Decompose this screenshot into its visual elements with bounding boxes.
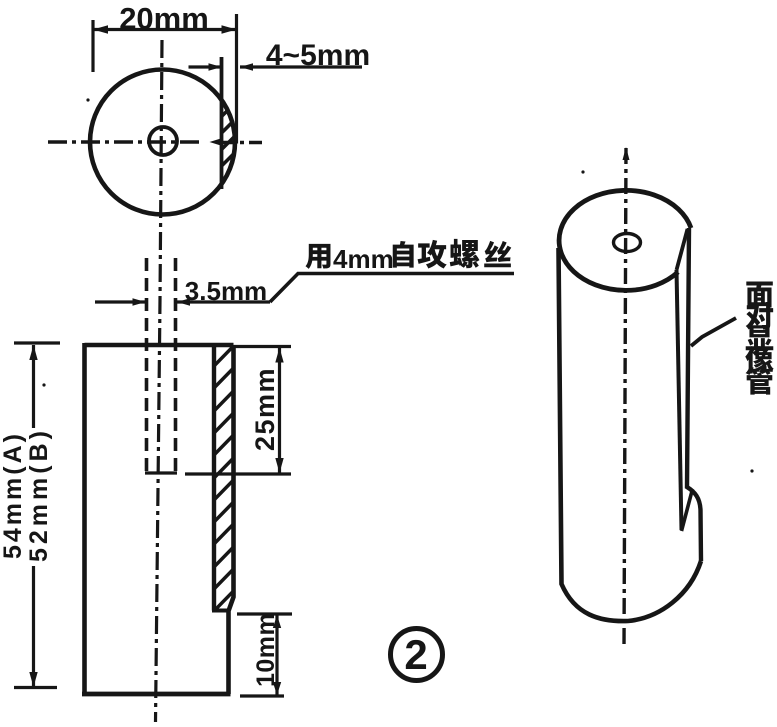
svg-text:2: 2 — [404, 631, 427, 678]
svg-text:20mm: 20mm — [119, 1, 209, 36]
svg-text:54mm(A): 54mm(A) — [0, 431, 27, 559]
svg-text:3.5mm: 3.5mm — [185, 276, 267, 306]
svg-text:4~5mm: 4~5mm — [266, 39, 370, 72]
svg-text:25mm: 25mm — [250, 367, 280, 451]
svg-text:52mm(B): 52mm(B) — [25, 427, 53, 562]
svg-text:10mm: 10mm — [252, 613, 280, 687]
svg-text:4mm: 4mm — [333, 244, 394, 274]
